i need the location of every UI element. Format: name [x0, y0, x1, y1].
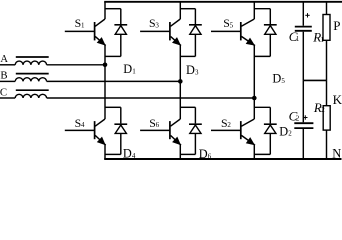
svg-text:1: 1: [320, 36, 324, 44]
svg-text:A: A: [0, 54, 8, 65]
svg-text:5: 5: [230, 22, 234, 30]
svg-text:1: 1: [296, 35, 300, 43]
svg-text:D: D: [272, 72, 281, 86]
svg-text:6: 6: [156, 121, 160, 129]
svg-text:1: 1: [81, 22, 85, 30]
svg-text:K: K: [333, 92, 342, 107]
svg-text:D: D: [123, 62, 132, 76]
svg-text:2: 2: [288, 130, 292, 138]
svg-text:D: D: [186, 63, 195, 77]
svg-text:5: 5: [281, 77, 285, 85]
svg-text:2: 2: [296, 115, 300, 123]
svg-text:D: D: [123, 147, 132, 161]
svg-text:B: B: [0, 69, 7, 81]
svg-text:4: 4: [132, 152, 136, 160]
svg-text:2: 2: [227, 121, 231, 129]
svg-text:6: 6: [208, 152, 212, 160]
svg-text:1: 1: [132, 68, 136, 76]
svg-text:4: 4: [81, 121, 85, 129]
svg-text:P: P: [333, 18, 340, 33]
svg-text:D: D: [199, 147, 208, 161]
svg-text:C: C: [0, 86, 7, 98]
svg-text:3: 3: [195, 69, 199, 77]
svg-text:D: D: [279, 124, 288, 138]
svg-text:N: N: [332, 147, 341, 161]
svg-text:2: 2: [321, 106, 325, 114]
svg-text:3: 3: [155, 22, 159, 30]
